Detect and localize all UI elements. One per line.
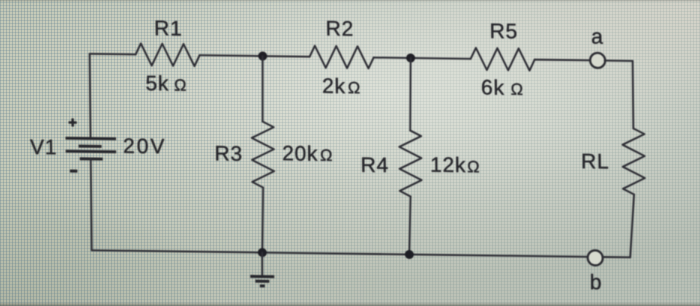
wire R4 upper lead xyxy=(409,58,411,131)
ground bar 2 xyxy=(255,280,269,283)
plus sign xyxy=(69,118,77,126)
resistor R5 xyxy=(471,48,535,71)
svg-text:12kΩ: 12kΩ xyxy=(430,154,480,178)
resistor R4 xyxy=(399,130,422,196)
svg-text:R1: R1 xyxy=(154,17,182,40)
battery V1 plate long top xyxy=(66,137,117,141)
wire R2 to node B xyxy=(374,58,471,59)
node A junction dot xyxy=(258,52,267,61)
node D junction dot (R4 bottom) xyxy=(405,250,414,259)
svg-text:2kΩ: 2kΩ xyxy=(322,75,361,99)
wire left vertical upper (V1 to top) xyxy=(89,54,92,139)
wire RL lower lead to bottom-right corner xyxy=(630,194,635,257)
wire R3 lower lead xyxy=(262,188,264,253)
svg-text:a: a xyxy=(591,26,604,49)
wire R1 to node A xyxy=(200,55,310,56)
minus sign xyxy=(70,170,78,173)
wire left vertical lower xyxy=(90,159,93,250)
svg-text:b: b xyxy=(590,271,603,294)
resistor RL xyxy=(622,128,645,194)
wire R3 upper lead xyxy=(262,56,263,122)
terminal b xyxy=(588,250,603,265)
wire right vertical upper (corner to RL) xyxy=(632,61,635,129)
battery V1 plate short xyxy=(79,145,102,148)
wire R5 to terminal a xyxy=(535,59,591,62)
ground bar 1 xyxy=(250,275,274,278)
svg-text:R4: R4 xyxy=(361,154,389,177)
svg-text:R2: R2 xyxy=(326,17,354,40)
svg-text:R3: R3 xyxy=(214,142,242,165)
node C junction dot (ground node) xyxy=(258,248,267,257)
ground stub wire xyxy=(261,253,263,277)
battery V1 plate short bottom xyxy=(80,157,103,160)
resistor R2 xyxy=(310,46,374,69)
resistor R1 xyxy=(136,43,200,66)
svg-text:20kΩ: 20kΩ xyxy=(282,142,333,166)
resistor R3 xyxy=(252,121,275,187)
node B junction dot xyxy=(406,53,415,62)
terminal a xyxy=(590,53,605,68)
wire bottom left segment xyxy=(92,250,588,256)
svg-text:V1: V1 xyxy=(30,136,57,159)
svg-text:RL: RL xyxy=(581,150,609,173)
svg-text:5kΩ: 5kΩ xyxy=(145,72,187,96)
svg-text:20V: 20V xyxy=(123,135,167,159)
svg-text:R5: R5 xyxy=(490,20,518,43)
wire terminal b to bottom-right corner xyxy=(603,256,631,258)
wire top-left segment xyxy=(90,53,136,56)
svg-text:6kΩ: 6kΩ xyxy=(481,76,524,100)
ground bar 3 xyxy=(260,284,265,287)
battery V1 plate long xyxy=(66,150,117,154)
wire terminal a to top-right corner xyxy=(605,60,633,62)
wire R4 lower lead xyxy=(409,196,411,254)
